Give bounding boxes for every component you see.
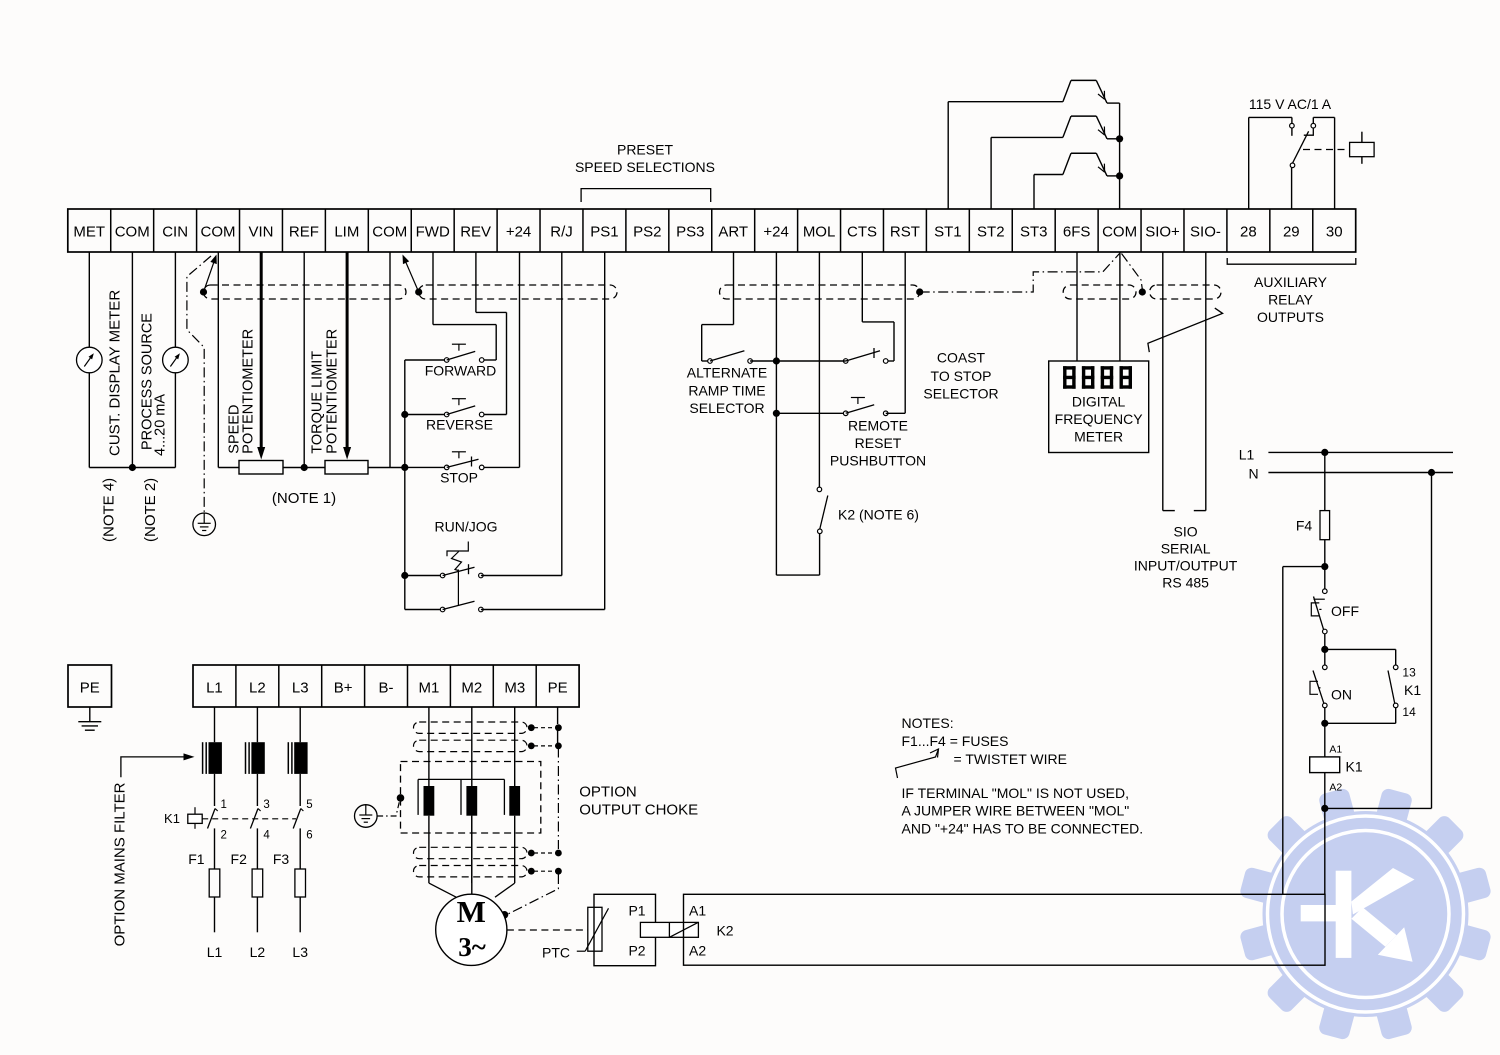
- svg-text:TORQUE LIMIT: TORQUE LIMIT: [310, 351, 326, 454]
- svg-text:6: 6: [306, 830, 312, 842]
- svg-text:N: N: [1248, 466, 1258, 482]
- svg-text:SPEED SELECTIONS: SPEED SELECTIONS: [575, 159, 715, 175]
- svg-text:ART: ART: [718, 224, 748, 241]
- svg-text:OPTION: OPTION: [579, 784, 637, 801]
- svg-text:PS3: PS3: [676, 224, 704, 241]
- svg-text:3: 3: [263, 799, 269, 811]
- svg-text:F1...F4 = FUSES: F1...F4 = FUSES: [902, 733, 1009, 749]
- svg-text:ST1: ST1: [934, 224, 962, 241]
- svg-text:INPUT/OUTPUT: INPUT/OUTPUT: [1134, 558, 1238, 574]
- svg-text:RELAY: RELAY: [1268, 292, 1314, 308]
- svg-text:ST3: ST3: [1020, 224, 1048, 241]
- svg-text:14: 14: [1402, 705, 1416, 719]
- svg-text:M2: M2: [461, 680, 482, 697]
- svg-text:RAMP TIME: RAMP TIME: [688, 382, 765, 398]
- svg-text:SELECTOR: SELECTOR: [923, 386, 998, 402]
- svg-text:A1: A1: [689, 903, 706, 919]
- svg-text:PE: PE: [80, 680, 100, 697]
- svg-text:SIO: SIO: [1174, 524, 1198, 540]
- svg-text:2: 2: [221, 830, 227, 842]
- svg-text:FREQUENCY: FREQUENCY: [1055, 411, 1144, 427]
- svg-text:M3: M3: [504, 680, 525, 697]
- svg-text:DIGITAL: DIGITAL: [1072, 393, 1126, 409]
- svg-text:AUXILIARY: AUXILIARY: [1254, 274, 1328, 290]
- svg-text:METER: METER: [1074, 428, 1123, 444]
- svg-text:PUSHBUTTON: PUSHBUTTON: [830, 452, 926, 468]
- svg-text:IF TERMINAL "MOL" IS NOT USED,: IF TERMINAL "MOL" IS NOT USED,: [902, 785, 1130, 801]
- svg-text:OFF: OFF: [1331, 603, 1359, 619]
- svg-text:PS1: PS1: [590, 224, 618, 241]
- svg-text:POTENTIOMETER: POTENTIOMETER: [241, 329, 257, 454]
- svg-text:M1: M1: [419, 680, 440, 697]
- svg-text:3~: 3~: [458, 932, 486, 962]
- svg-text:PS2: PS2: [633, 224, 661, 241]
- svg-text:A1: A1: [1329, 744, 1342, 756]
- svg-text:FWD: FWD: [416, 224, 450, 241]
- svg-text:= TWISTET WIRE: = TWISTET WIRE: [954, 751, 1067, 767]
- svg-text:A2: A2: [689, 943, 706, 959]
- svg-text:OUTPUTS: OUTPUTS: [1257, 309, 1324, 325]
- svg-text:5: 5: [306, 799, 312, 811]
- svg-text:+24: +24: [763, 224, 788, 241]
- svg-text:ALTERNATE: ALTERNATE: [687, 364, 767, 380]
- svg-text:AND "+24" HAS TO BE CONNECTED.: AND "+24" HAS TO BE CONNECTED.: [902, 820, 1144, 836]
- svg-text:SELECTOR: SELECTOR: [689, 400, 764, 416]
- svg-text:STOP: STOP: [440, 470, 478, 486]
- svg-text:(NOTE 2): (NOTE 2): [142, 478, 159, 542]
- svg-text:F1: F1: [188, 851, 205, 867]
- svg-text:SIO-: SIO-: [1190, 224, 1221, 241]
- svg-text:CIN: CIN: [162, 224, 188, 241]
- svg-text:RS 485: RS 485: [1162, 575, 1209, 591]
- svg-text:K1: K1: [1404, 682, 1421, 698]
- svg-text:PRESET: PRESET: [617, 142, 673, 158]
- svg-text:RUN/JOG: RUN/JOG: [435, 519, 498, 535]
- svg-text:SIO+: SIO+: [1145, 224, 1180, 241]
- svg-text:4: 4: [263, 830, 270, 842]
- svg-text:F3: F3: [273, 851, 290, 867]
- svg-text:COM: COM: [115, 224, 150, 241]
- svg-text:REV: REV: [460, 224, 491, 241]
- svg-text:(NOTE 4): (NOTE 4): [101, 478, 118, 542]
- svg-text:SERIAL: SERIAL: [1161, 541, 1211, 557]
- svg-text:POTENTIOMETER: POTENTIOMETER: [325, 329, 341, 454]
- svg-text:L1: L1: [1239, 447, 1255, 463]
- svg-text:L2: L2: [249, 680, 266, 697]
- svg-text:MET: MET: [73, 224, 105, 241]
- svg-text:(NOTE 1): (NOTE 1): [272, 490, 336, 507]
- svg-text:B+: B+: [334, 680, 353, 697]
- svg-text:R/J: R/J: [550, 224, 573, 241]
- svg-text:ON: ON: [1331, 687, 1352, 703]
- svg-text:COM: COM: [1102, 224, 1137, 241]
- svg-text:L1: L1: [206, 680, 223, 697]
- svg-text:K1: K1: [1346, 759, 1363, 775]
- svg-text:OUTPUT CHOKE: OUTPUT CHOKE: [579, 802, 698, 819]
- svg-text:REF: REF: [289, 224, 319, 241]
- svg-text:COM: COM: [372, 224, 407, 241]
- svg-text:REVERSE: REVERSE: [426, 417, 493, 433]
- svg-text:CUST. DISPLAY METER: CUST. DISPLAY METER: [107, 290, 124, 456]
- svg-text:L1: L1: [207, 944, 223, 960]
- svg-text:MOL: MOL: [803, 224, 836, 241]
- svg-text:F2: F2: [231, 851, 248, 867]
- svg-text:K1: K1: [164, 811, 180, 826]
- svg-text:29: 29: [1283, 224, 1300, 241]
- svg-text:L3: L3: [292, 944, 308, 960]
- svg-text:K2 (NOTE 6): K2 (NOTE 6): [838, 507, 919, 523]
- svg-text:30: 30: [1326, 224, 1343, 241]
- svg-text:COAST: COAST: [937, 350, 986, 366]
- svg-text:28: 28: [1240, 224, 1257, 241]
- svg-text:RESET: RESET: [855, 435, 902, 451]
- svg-text:RST: RST: [890, 224, 920, 241]
- svg-text:115 V AC/1 A: 115 V AC/1 A: [1249, 96, 1332, 112]
- svg-text:1: 1: [221, 799, 227, 811]
- svg-text:TO STOP: TO STOP: [931, 368, 992, 384]
- svg-text:B-: B-: [379, 680, 394, 697]
- svg-text:4...20 mA: 4...20 mA: [153, 394, 169, 456]
- svg-text:VIN: VIN: [248, 224, 273, 241]
- svg-text:NOTES:: NOTES:: [902, 715, 954, 731]
- svg-text:P2: P2: [628, 943, 645, 959]
- svg-text:M: M: [457, 894, 486, 929]
- svg-text:L3: L3: [292, 680, 309, 697]
- svg-text:P1: P1: [628, 903, 645, 919]
- svg-text:A2: A2: [1329, 782, 1342, 794]
- svg-text:LIM: LIM: [334, 224, 359, 241]
- svg-text:PE: PE: [548, 680, 568, 697]
- svg-text:REMOTE: REMOTE: [848, 418, 908, 434]
- svg-text:ST2: ST2: [977, 224, 1005, 241]
- svg-text:+24: +24: [506, 224, 531, 241]
- svg-text:COM: COM: [201, 224, 236, 241]
- svg-text:PTC: PTC: [542, 945, 570, 961]
- svg-text:OPTION MAINS FILTER: OPTION MAINS FILTER: [112, 782, 129, 946]
- svg-text:13: 13: [1402, 666, 1416, 680]
- svg-text:K2: K2: [716, 923, 733, 939]
- svg-text:6FS: 6FS: [1063, 224, 1091, 241]
- svg-text:FORWARD: FORWARD: [425, 363, 497, 379]
- svg-text:A JUMPER WIRE BETWEEN "MOL": A JUMPER WIRE BETWEEN "MOL": [902, 803, 1130, 819]
- svg-text:F4: F4: [1296, 518, 1313, 534]
- svg-text:CTS: CTS: [847, 224, 877, 241]
- svg-text:L2: L2: [250, 944, 266, 960]
